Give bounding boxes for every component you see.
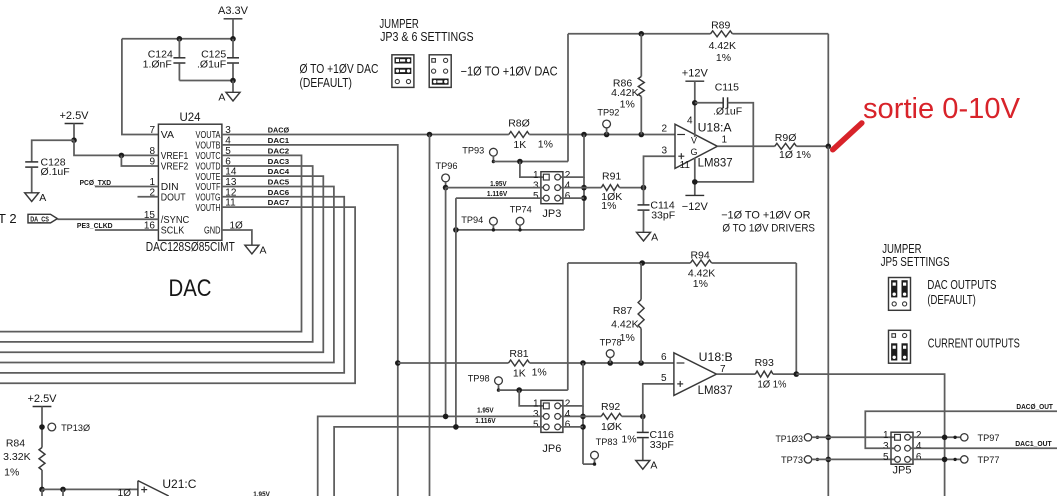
- capacitor C124: [178, 39, 180, 58]
- svg-text:1K: 1K: [513, 367, 526, 379]
- wire bottom to TP94/TP74: [456, 229, 584, 231]
- svg-text:SCLK: SCLK: [161, 226, 185, 237]
- wire JP3 pin2 up to input net: [561, 135, 585, 178]
- wire output B to JP5 pin2 feed: [796, 374, 944, 496]
- junction output A: [826, 144, 832, 150]
- svg-text:TP94: TP94: [461, 215, 483, 226]
- wire feedback B down to output: [795, 263, 797, 374]
- svg-text:1%: 1%: [620, 332, 635, 344]
- svg-text:A: A: [650, 460, 657, 472]
- wire feedback limb B up: [567, 263, 569, 390]
- junction JP6 pin2 branch: [580, 360, 586, 366]
- svg-text:A: A: [260, 244, 267, 256]
- svg-text:/SYNC: /SYNC: [161, 215, 190, 226]
- svg-text:TP77: TP77: [978, 455, 1000, 466]
- svg-text:3.32K: 3.32K: [3, 451, 30, 463]
- svg-text:TP1Ø3: TP1Ø3: [776, 434, 804, 445]
- svg-text:DAC7: DAC7: [268, 198, 290, 207]
- svg-text:VREF2: VREF2: [161, 162, 189, 173]
- svg-text:R94: R94: [690, 250, 709, 262]
- svg-text:GND: GND: [204, 226, 221, 237]
- svg-text:PE3_CLKD: PE3_CLKD: [77, 221, 113, 230]
- svg-text:JP3 & 6 SETTINGS: JP3 & 6 SETTINGS: [380, 30, 474, 44]
- svg-text:1.116V: 1.116V: [487, 191, 508, 198]
- junction R91/C114/op-amp+: [641, 185, 647, 191]
- svg-text:R89: R89: [711, 20, 730, 32]
- ground A (A3.3V decoupling): [226, 92, 240, 101]
- wire JP5 pin4 DAC1_OUT: [910, 447, 1057, 449]
- wire to op-amp pin 5: [643, 384, 674, 417]
- svg-text:DAC5: DAC5: [268, 178, 290, 187]
- svg-text:1.95V: 1.95V: [490, 181, 507, 188]
- wire R84 node to U21:C: [42, 488, 138, 490]
- op-amp U18:B LM837: [674, 353, 717, 396]
- svg-text:DA_CS: DA_CS: [30, 215, 49, 224]
- junction TP96 vertical at JP6: [443, 414, 449, 420]
- svg-text:−1Ø TO +1ØV DAC: −1Ø TO +1ØV DAC: [461, 64, 558, 78]
- junction out A at TP103 row: [826, 435, 832, 441]
- svg-text:TP78: TP78: [600, 338, 622, 349]
- svg-text:1%: 1%: [4, 466, 19, 478]
- svg-text:2: 2: [916, 430, 922, 441]
- svg-text:11: 11: [680, 160, 691, 171]
- wire DIN pin 1: [95, 186, 158, 188]
- svg-text:1Ø: 1Ø: [118, 488, 132, 496]
- junction DAC1 to R81: [395, 360, 401, 366]
- svg-text:VREF1: VREF1: [161, 151, 189, 162]
- svg-text:DAC: DAC: [169, 275, 212, 302]
- junction C124 top: [177, 36, 183, 42]
- wire op-amp V- pin 11 to -12V: [694, 158, 696, 196]
- junction JP6 pin1 branch: [516, 387, 522, 393]
- svg-text:33pF: 33pF: [650, 439, 674, 451]
- junction R87 top: [639, 260, 645, 266]
- wire JP6 pin6: [561, 426, 584, 428]
- svg-text:2: 2: [661, 124, 667, 135]
- wire +2.5V down: [73, 124, 75, 141]
- svg-text:3: 3: [883, 441, 889, 452]
- svg-text:5: 5: [661, 373, 667, 384]
- junction C125 top: [230, 36, 236, 42]
- wire VREF1 to VREF2 pin 9: [121, 155, 158, 166]
- svg-text:1%: 1%: [716, 52, 731, 64]
- svg-text:1.ØnF: 1.ØnF: [143, 59, 172, 71]
- wire feedback down to output: [827, 34, 829, 147]
- junction TP130: [39, 424, 45, 430]
- wire net DAC3: [0, 166, 313, 342]
- wire net DAC6: [0, 197, 344, 373]
- wire JP6 pin4: [561, 415, 584, 417]
- junction JP3 pin1 branch: [517, 159, 523, 165]
- op-amp U21:C (cropped): [138, 481, 169, 496]
- wire JP5 pin3 to DAC0_OUT: [865, 411, 1057, 448]
- svg-text:DAC6: DAC6: [268, 188, 290, 197]
- test point TP97: [961, 434, 968, 441]
- capacitor C125: [232, 39, 234, 58]
- wire +12V to op-amp V+ pin 4: [694, 81, 696, 137]
- wire R80 to op-amp pin 2: [529, 134, 675, 136]
- svg-text:(DEFAULT): (DEFAULT): [300, 76, 353, 90]
- svg-text:JP5: JP5: [893, 465, 912, 477]
- wire JP3 pin6: [561, 197, 585, 199]
- wire net DAC0: [222, 134, 509, 136]
- svg-text:6: 6: [565, 420, 571, 431]
- svg-text:A: A: [651, 232, 658, 244]
- junction out B at TP77 row: [942, 457, 948, 463]
- svg-text:Ø.1uF: Ø.1uF: [41, 166, 70, 178]
- svg-text:VOUTB: VOUTB: [196, 141, 221, 152]
- svg-text:6: 6: [565, 191, 571, 202]
- capacitor C114: [643, 188, 645, 205]
- resistor R81: [509, 360, 530, 366]
- svg-text:R84: R84: [6, 437, 25, 449]
- wire JP3 pin4: [561, 187, 585, 189]
- junction pin6 row B: [580, 424, 586, 430]
- resistor R89: [711, 31, 733, 37]
- ground A (C128): [25, 193, 39, 202]
- svg-text:1: 1: [533, 170, 539, 181]
- wire net 1.116V vertical: [455, 198, 457, 427]
- svg-text:1%: 1%: [621, 433, 636, 445]
- wire feedback top right: [732, 33, 828, 35]
- wire to op-amp pin 3: [644, 156, 676, 187]
- test point TP77: [961, 456, 968, 463]
- wire op-amp B output: [717, 373, 756, 375]
- junction out A at TP73 row: [826, 457, 832, 463]
- svg-text:3: 3: [533, 409, 539, 420]
- svg-text:TP93: TP93: [462, 145, 484, 156]
- svg-text:1ØK: 1ØK: [601, 421, 622, 433]
- capacitor C116: [642, 416, 644, 432]
- resistor R92: [583, 415, 601, 417]
- wire TP93 to feedback limb: [493, 161, 568, 163]
- junction pin4 row: [581, 185, 587, 191]
- svg-text:VOUTA: VOUTA: [196, 130, 221, 141]
- wire DAC0 branch down: [429, 135, 431, 496]
- svg-text:DAC2: DAC2: [268, 147, 290, 156]
- junction R86 bottom: [639, 132, 645, 138]
- svg-text:R91: R91: [602, 170, 621, 182]
- svg-text:1.116V: 1.116V: [475, 418, 496, 425]
- svg-text:DOUT: DOUT: [161, 193, 186, 204]
- svg-text:VOUTH: VOUTH: [196, 203, 221, 214]
- svg-text:CURRENT OUTPUTS: CURRENT OUTPUTS: [928, 336, 1020, 350]
- wire net DAC7: [0, 207, 355, 383]
- svg-text:VA: VA: [161, 130, 175, 141]
- svg-text:(DEFAULT): (DEFAULT): [927, 293, 975, 307]
- svg-text:R8Ø: R8Ø: [508, 118, 530, 130]
- capacitor C115: [695, 102, 723, 104]
- svg-text:LM837: LM837: [698, 383, 733, 397]
- svg-text:6: 6: [916, 452, 922, 463]
- svg-text:1: 1: [533, 399, 539, 410]
- connector JP6: [541, 400, 563, 432]
- svg-text:1%: 1%: [620, 99, 635, 111]
- svg-text:DACØ: DACØ: [268, 126, 290, 135]
- svg-text:1.95V: 1.95V: [253, 492, 270, 496]
- svg-text:U24: U24: [179, 112, 201, 124]
- svg-text:TP83: TP83: [596, 437, 618, 448]
- junction R86 top: [639, 31, 645, 37]
- svg-text:1Ø 1%: 1Ø 1%: [779, 149, 811, 161]
- resistor R84: [39, 448, 45, 471]
- capacitor C128: [25, 161, 38, 163]
- svg-text:TP74: TP74: [510, 204, 532, 215]
- svg-text:8: 8: [149, 146, 155, 157]
- wire JP3 pin3 (1.95V): [446, 187, 544, 189]
- svg-text:sortie 0-10V: sortie 0-10V: [863, 93, 1021, 125]
- svg-text:33pF: 33pF: [651, 210, 675, 222]
- wire C124 to C125 bottom rail: [179, 80, 233, 82]
- wire TP103 to JP5 pin 1: [812, 436, 895, 438]
- junction VREF node: [119, 153, 125, 159]
- jumper setting symbol JP3 default (top two shunted): [392, 55, 414, 88]
- junction output B: [794, 371, 800, 377]
- net flag DA_CS: [28, 214, 57, 223]
- resistor R87: [640, 263, 642, 300]
- test point TP92: [606, 128, 608, 135]
- svg-text:9: 9: [149, 157, 155, 168]
- svg-text:TP92: TP92: [597, 108, 619, 119]
- junction pin4 row B: [580, 414, 586, 420]
- svg-text:R92: R92: [601, 401, 620, 413]
- wire R93 to output node B: [773, 373, 796, 375]
- wire SCLK pin 16: [95, 229, 158, 231]
- wire TP96 vertical to JP6 row: [445, 188, 447, 417]
- svg-text:VOUTE: VOUTE: [196, 172, 221, 183]
- junction R87 bottom: [638, 360, 644, 366]
- connector JP3: [541, 172, 563, 204]
- svg-text:R81: R81: [509, 348, 528, 360]
- svg-text:A3.3V: A3.3V: [218, 5, 249, 17]
- wire DAC1 to R81: [398, 362, 509, 364]
- svg-text:.Ø1uF: .Ø1uF: [197, 59, 226, 71]
- ground A (U24 GND): [245, 245, 259, 254]
- svg-text:5: 5: [533, 191, 539, 202]
- test point TP130: [48, 423, 56, 431]
- resistor R93: [755, 371, 773, 377]
- svg-text:1%: 1%: [601, 200, 616, 212]
- svg-text:1K: 1K: [513, 139, 526, 151]
- svg-text:DACØ_OUT: DACØ_OUT: [1016, 402, 1053, 411]
- svg-text:DAC4: DAC4: [268, 167, 290, 176]
- svg-text:TP96: TP96: [436, 161, 458, 172]
- junction pin6 row: [581, 195, 587, 201]
- svg-text:1%: 1%: [532, 367, 547, 379]
- junction DAC0 branch: [427, 132, 433, 138]
- IC U24 DAC128S085CIMT: [158, 112, 222, 240]
- svg-text:7: 7: [149, 125, 155, 136]
- wire net 1.116V feed: [334, 427, 543, 496]
- junction 1.116V vertical at JP6: [453, 424, 459, 430]
- wire feedback B right: [712, 262, 797, 264]
- svg-text:TP97: TP97: [978, 433, 1000, 444]
- svg-text:A: A: [218, 92, 225, 104]
- svg-text:+12V: +12V: [682, 68, 709, 80]
- svg-text:DAC128SØ85CIMT: DAC128SØ85CIMT: [146, 240, 235, 254]
- resistor R94: [690, 260, 711, 266]
- svg-text:1Ø 1%: 1Ø 1%: [758, 378, 787, 390]
- svg-text:+2.5V: +2.5V: [59, 110, 89, 122]
- wire net 1.95V feed: [318, 416, 544, 496]
- wire to C128: [32, 140, 74, 161]
- wire net DAC4: [0, 176, 323, 352]
- power flag +12V: [685, 80, 704, 82]
- svg-text:DAC1: DAC1: [268, 136, 290, 145]
- pin stub DOUT no-connect: [138, 196, 159, 198]
- svg-text:4: 4: [565, 409, 571, 420]
- wire /SYNC pin 15: [57, 218, 158, 220]
- svg-text:3: 3: [661, 145, 667, 156]
- wire output A vertical: [827, 146, 829, 496]
- junction JP3 pin2 branch: [581, 132, 587, 138]
- svg-text:U18:A: U18:A: [698, 120, 732, 134]
- wire net DAC1: [222, 145, 398, 496]
- junction +2.5V node: [71, 137, 77, 143]
- svg-text:Ø TO 1ØV DRIVERS: Ø TO 1ØV DRIVERS: [722, 223, 815, 235]
- wire feedback B top: [568, 262, 691, 264]
- svg-text:VOUTC: VOUTC: [196, 151, 221, 162]
- power flag +2.5V (reference): [33, 406, 52, 408]
- wire R81 to op-amp pin 6: [530, 362, 674, 364]
- svg-text:JP5 SETTINGS: JP5 SETTINGS: [881, 255, 950, 269]
- wire JP5 pin6 to TP77: [910, 458, 960, 460]
- wire net DAC5: [0, 187, 334, 363]
- svg-text:JUMPER: JUMPER: [882, 242, 921, 256]
- junction 1.116V vertical at TP94 wire: [453, 227, 459, 233]
- jumper setting symbol JP5 default (vertical shunts top): [889, 278, 911, 311]
- svg-text:2: 2: [565, 399, 571, 410]
- wire JP3 right column common: [583, 177, 585, 230]
- svg-text:A: A: [39, 192, 46, 204]
- power flag +2.5V: [65, 123, 84, 125]
- svg-text:1: 1: [722, 134, 728, 145]
- svg-text:5: 5: [533, 420, 539, 431]
- wire rail down to VA pin 7: [122, 39, 158, 135]
- junction C115 left: [692, 100, 698, 106]
- svg-text:−12V: −12V: [682, 201, 709, 213]
- wire net DAC2: [0, 155, 302, 331]
- svg-text:4.42K: 4.42K: [709, 40, 736, 52]
- wire to ground: [232, 81, 234, 93]
- svg-text:5: 5: [883, 452, 889, 463]
- wire TP73 to JP5 pin 5: [812, 458, 895, 460]
- svg-text:R87: R87: [613, 305, 632, 317]
- wire GND pin 10: [222, 230, 252, 245]
- svg-text:+2.5V: +2.5V: [27, 393, 57, 405]
- wire to JP3 pin 1: [520, 162, 544, 178]
- resistor R91: [584, 187, 601, 189]
- wire +2.5V to VREF1 pin 8: [74, 140, 158, 155]
- ground A (C114): [637, 232, 651, 241]
- wire +2.5V to R84: [41, 407, 43, 448]
- svg-text:3: 3: [533, 180, 539, 191]
- svg-text:TP98: TP98: [468, 374, 490, 385]
- wire TP98 to feedback limb B: [499, 389, 568, 391]
- svg-text:V: V: [691, 136, 697, 146]
- svg-text:JP6: JP6: [542, 443, 561, 455]
- svg-text:1%: 1%: [538, 139, 553, 151]
- op-amp U18:A LM837: [675, 124, 717, 168]
- wire R90 to output node: [797, 145, 829, 147]
- junction C115 right: [692, 179, 698, 185]
- svg-text:G: G: [690, 147, 697, 157]
- red arrow stroke: [833, 123, 862, 150]
- svg-text:1.95V: 1.95V: [477, 408, 494, 415]
- svg-text:−1Ø TO +1ØV OR: −1Ø TO +1ØV OR: [721, 209, 810, 221]
- svg-text:Ø TO +1ØV DAC: Ø TO +1ØV DAC: [300, 62, 379, 76]
- svg-text:DAC OUTPUTS: DAC OUTPUTS: [927, 278, 996, 292]
- junction out B at TP97 row: [942, 435, 948, 441]
- power flag A3.3V: [224, 18, 243, 20]
- svg-text:DAC3: DAC3: [268, 157, 290, 166]
- connector JP5: [891, 432, 913, 464]
- junction R92/C116/op-amp+: [640, 414, 646, 420]
- wire R84 node down (cropped): [41, 489, 43, 496]
- wire rail A3.3V horizontal: [122, 38, 233, 40]
- svg-text:JUMPER: JUMPER: [379, 17, 418, 31]
- ground A (C116): [636, 461, 650, 470]
- svg-text:R93: R93: [755, 357, 774, 369]
- wire to TP83: [583, 463, 595, 465]
- svg-text:4: 4: [687, 115, 693, 126]
- jumper setting symbol current outputs (vertical shunts bottom): [889, 330, 911, 363]
- svg-text:.Ø1uF: .Ø1uF: [713, 105, 742, 117]
- svg-text:4: 4: [916, 441, 922, 452]
- svg-text:2: 2: [565, 170, 571, 181]
- wire op-amp A output: [717, 145, 774, 147]
- wire JP6 pin2 up to input net: [561, 363, 584, 406]
- junction TP78 stem: [607, 360, 613, 366]
- junction branch down (cropped): [60, 487, 66, 493]
- junction caps bottom: [230, 78, 236, 84]
- svg-text:4.42K: 4.42K: [611, 319, 638, 331]
- jumper setting symbol -10 to +10V (bottom shunted): [429, 55, 451, 88]
- svg-text:DAC1_OUT: DAC1_OUT: [1015, 439, 1052, 448]
- svg-text:U18:B: U18:B: [699, 350, 733, 364]
- power flag -12V: [685, 194, 704, 196]
- svg-text:1%: 1%: [693, 278, 708, 290]
- wire feedback top left: [568, 33, 711, 35]
- svg-text:R9Ø: R9Ø: [775, 132, 797, 144]
- resistor R80: [509, 132, 529, 138]
- wire A3.3V to rail: [232, 19, 234, 39]
- junction R84 bottom: [39, 487, 45, 493]
- svg-text:1: 1: [883, 430, 889, 441]
- junction TP92 stem: [604, 132, 610, 138]
- svg-text:JP3: JP3: [542, 208, 561, 220]
- svg-text:TP73: TP73: [781, 455, 803, 466]
- svg-text:T 2: T 2: [0, 211, 17, 226]
- junction TP96 on 1.95V wire: [443, 185, 449, 191]
- svg-text:6: 6: [661, 352, 667, 363]
- resistor R86: [640, 34, 642, 77]
- svg-text:TP13Ø: TP13Ø: [61, 423, 91, 434]
- wire JP5 pin2 to TP97: [910, 436, 960, 438]
- wire JP3 pin5 (1.116V): [456, 197, 544, 199]
- wire feedback limb up: [567, 34, 569, 162]
- svg-text:4.42K: 4.42K: [611, 87, 638, 99]
- svg-text:4: 4: [565, 180, 571, 191]
- svg-text:LM837: LM837: [698, 156, 733, 170]
- svg-text:U21:C: U21:C: [162, 477, 196, 491]
- svg-text:C115: C115: [715, 81, 739, 93]
- wire to JP6 pin 1: [519, 390, 543, 406]
- wire JP6 right column common: [582, 406, 584, 464]
- resistor R90: [775, 143, 797, 149]
